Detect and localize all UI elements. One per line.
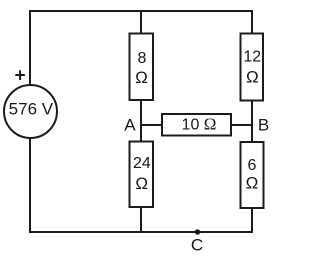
svg-text:B: B [258,115,269,134]
svg-text:Ω: Ω [135,174,148,193]
svg-text:A: A [124,115,136,134]
svg-text:6: 6 [248,157,257,174]
svg-text:Ω: Ω [135,68,148,87]
svg-text:8: 8 [138,50,147,67]
svg-text:12: 12 [243,49,261,66]
svg-text:24: 24 [133,155,151,172]
svg-text:C: C [191,235,203,254]
svg-text:Ω: Ω [246,174,259,193]
svg-text:Ω: Ω [246,67,259,86]
svg-text:576 V: 576 V [9,99,54,118]
svg-text:10 Ω: 10 Ω [182,115,217,134]
